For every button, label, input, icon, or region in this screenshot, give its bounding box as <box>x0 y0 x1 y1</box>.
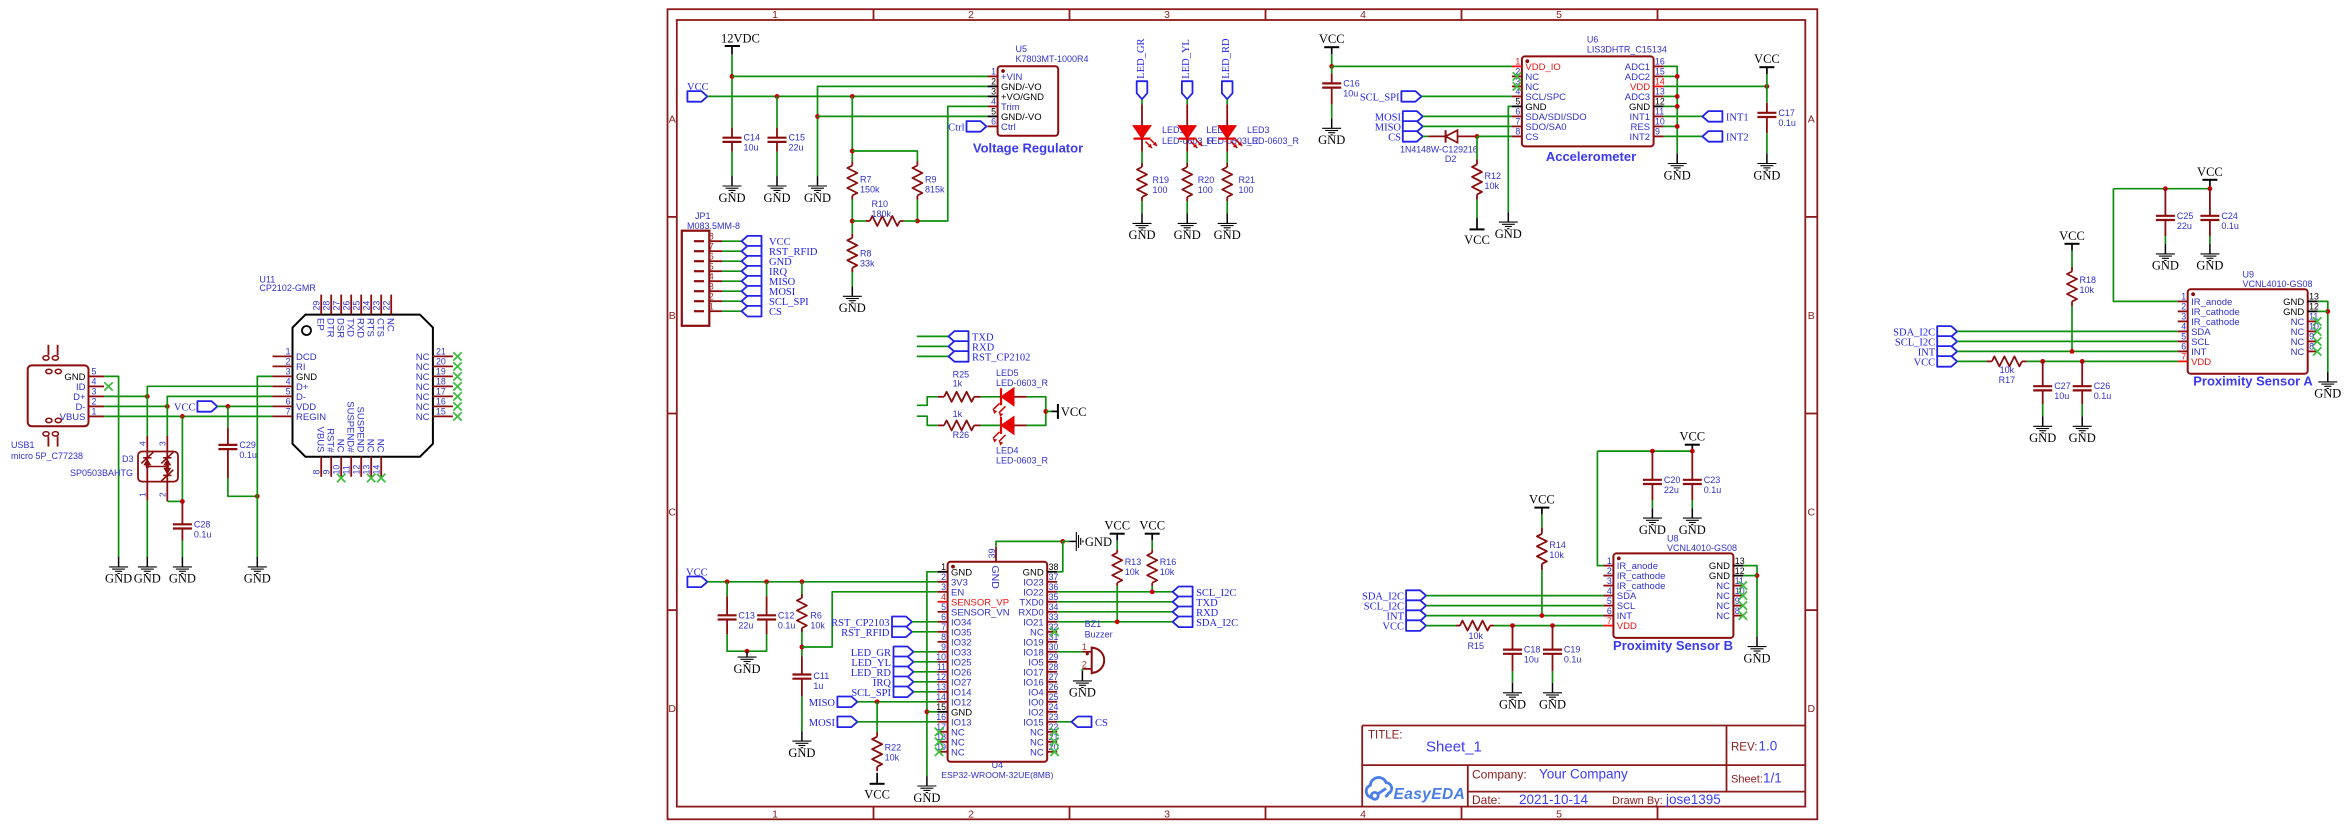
svg-text:16: 16 <box>936 712 946 722</box>
wire EN wire <box>802 592 938 647</box>
junction LED VCC <box>1043 409 1048 414</box>
wire to VCC flag <box>1046 410 1052 412</box>
svg-text:0.1u: 0.1u <box>2094 391 2112 401</box>
ground (U8 GND) <box>1743 637 1770 666</box>
net flag GND (JP1) <box>742 256 762 267</box>
svg-text:3: 3 <box>991 87 996 97</box>
svg-text:1k: 1k <box>953 409 963 419</box>
svg-text:GND: GND <box>2029 431 2056 445</box>
USB1 pin 2 D- <box>75 397 104 413</box>
LED4 anode lead <box>1014 424 1027 426</box>
svg-text:C23: C23 <box>1704 475 1721 485</box>
svg-text:VBUS: VBUS <box>60 412 86 423</box>
wire VCC to U11 VDD <box>217 405 273 407</box>
svg-text:R9: R9 <box>925 175 937 185</box>
svg-text:6: 6 <box>709 252 714 262</box>
svg-text:Proximity Sensor A: Proximity Sensor A <box>2193 374 2313 389</box>
svg-text:10u: 10u <box>1343 88 1358 98</box>
D3 pin 1 lead <box>146 482 148 501</box>
svg-text:0.1u: 0.1u <box>778 620 796 630</box>
svg-text:3: 3 <box>1164 9 1170 21</box>
svg-text:4: 4 <box>1607 586 1612 596</box>
svg-text:10k: 10k <box>1160 567 1175 577</box>
wire D+ riser to U11 pin 4 <box>147 386 272 396</box>
net flag SDA_I2C (U8) <box>1406 590 1426 601</box>
net flag TXD <box>949 331 969 342</box>
power flag VCC (R13) <box>1104 519 1130 541</box>
ground (C14) <box>718 176 745 205</box>
svg-text:R8: R8 <box>860 249 872 259</box>
net flag IRQ (JP1) <box>742 266 762 277</box>
svg-text:100: 100 <box>1153 185 1168 195</box>
U4 pin 25 IO0 <box>1028 692 1058 708</box>
net flag SDA_I2C (U9) <box>1937 326 1957 337</box>
svg-text:2021-10-14: 2021-10-14 <box>1519 792 1589 807</box>
net flag RST_CP2103 <box>892 617 912 628</box>
wire VBUS drop to D3/C28 <box>181 416 183 501</box>
connector USB1 body <box>28 365 89 426</box>
svg-text:29: 29 <box>312 301 322 311</box>
svg-text:35: 35 <box>1049 592 1059 602</box>
net flag CS (JP1) <box>742 306 762 317</box>
svg-text:R21: R21 <box>1239 175 1256 185</box>
net flag SDA_I2C (U4) <box>1173 617 1193 628</box>
svg-text:1: 1 <box>1607 556 1612 566</box>
U11 pin 27 DSR <box>332 295 346 339</box>
svg-text:micro 5P_C77238: micro 5P_C77238 <box>11 451 83 461</box>
wire U6 pin to GND rail <box>1664 95 1678 97</box>
svg-text:27: 27 <box>1049 672 1059 682</box>
junction C23 <box>1690 449 1695 454</box>
U8 pin 6 INT <box>1603 606 1632 622</box>
svg-text:1: 1 <box>2181 292 2186 302</box>
svg-text:12: 12 <box>352 465 362 475</box>
wire LED_YL flag to LED <box>1186 99 1188 104</box>
frame row letters <box>668 113 1815 715</box>
svg-text:B: B <box>669 310 676 322</box>
wire D- from USB <box>104 405 167 407</box>
svg-text:12: 12 <box>1735 566 1745 576</box>
power flag VCC (U8) <box>1679 430 1705 452</box>
svg-text:1: 1 <box>772 9 778 21</box>
svg-text:VDD: VDD <box>2191 357 2211 368</box>
svg-text:2: 2 <box>1082 659 1087 669</box>
wire MISO wire to U4 IO12 <box>857 701 937 703</box>
net flag LED_GR (U4) <box>894 647 914 658</box>
U4 pin 21 NC <box>1030 732 1059 748</box>
svg-text:LED_GR: LED_GR <box>1136 38 1147 78</box>
junction R9/R10/Trim <box>915 219 920 224</box>
U4 pin 4 SENSOR_VP <box>938 592 1009 608</box>
wire INT to U9 INT <box>1957 350 2178 352</box>
svg-text:NC: NC <box>2291 347 2305 358</box>
svg-text:0.1u: 0.1u <box>194 529 212 539</box>
svg-text:15: 15 <box>436 407 446 417</box>
svg-text:2: 2 <box>2181 302 2186 312</box>
capacitor C12 <box>757 596 776 634</box>
svg-text:26: 26 <box>1049 682 1059 692</box>
U9 pin 12 GND <box>2283 302 2319 318</box>
svg-text:D: D <box>668 703 676 715</box>
svg-text:LED5: LED5 <box>996 368 1019 378</box>
JP1 pin 7 <box>694 242 722 252</box>
svg-text:2: 2 <box>709 292 714 302</box>
svg-text:9: 9 <box>2309 332 2314 342</box>
IC U5 voltage regulator body <box>998 66 1059 136</box>
resistor R20 <box>1182 163 1192 201</box>
wire IO21 to SDA_I2C <box>1057 621 1172 623</box>
wire U4 pin15 to GND rail <box>927 711 938 713</box>
junction C19 <box>1550 623 1555 628</box>
wire VCC rail to U9 IR_anode <box>2113 189 2177 302</box>
svg-text:5: 5 <box>1556 809 1562 821</box>
capacitor C14 <box>723 128 742 152</box>
U6 pin1 marker dot <box>1525 59 1529 63</box>
svg-text:M083.5MM-8: M083.5MM-8 <box>687 221 740 231</box>
svg-text:10k: 10k <box>2000 365 2015 375</box>
svg-text:BZ1: BZ1 <box>1085 619 1102 629</box>
svg-text:B: B <box>1808 310 1815 322</box>
wire SCL_I2C to U8 SCL <box>1426 605 1603 607</box>
junction U6 GND rail <box>1675 74 1680 79</box>
U6 pin 4 SCL/SPC <box>1512 87 1566 103</box>
wire VCC to C29 <box>227 406 229 427</box>
ground (R21) <box>1214 214 1241 243</box>
net flag MOSI (JP1) <box>742 286 762 297</box>
svg-text:NC: NC <box>385 318 396 332</box>
wire C29 bottom to GND node <box>228 478 257 496</box>
wire C27 to ground <box>2042 404 2044 416</box>
junction C26 <box>2080 359 2085 364</box>
junction R16/SCL <box>1150 589 1155 594</box>
svg-text:GND: GND <box>1069 686 1096 700</box>
U4 pin 36 IO22 <box>1023 582 1058 598</box>
svg-text:27: 27 <box>332 301 342 311</box>
svg-text:7: 7 <box>709 242 714 252</box>
U11 pin 13 NC <box>362 439 376 477</box>
svg-text:10k: 10k <box>1549 550 1564 560</box>
wire U6 INT1 wire <box>1664 115 1703 117</box>
JP1 pin 1 <box>694 302 722 312</box>
wire stub to R26 <box>917 416 938 425</box>
power flag VCC (C16) <box>1319 32 1345 54</box>
svg-text:GND: GND <box>989 566 1001 590</box>
svg-text:Drawn By:: Drawn By: <box>1612 795 1663 807</box>
wire D3 pin2 to C28 node <box>167 500 182 502</box>
wire R18 to INT line <box>2071 306 2073 351</box>
U11 pin 8 VBUS <box>312 427 326 477</box>
no-connect X on U8 pin 11 <box>1739 581 1747 589</box>
U11 pin 20 NC <box>416 357 453 373</box>
U4 pin1 marker dot <box>951 565 955 569</box>
no-connect X on U8 pin 9 <box>1739 601 1747 609</box>
wire C17 to ground <box>1766 133 1768 153</box>
ground (R8) <box>839 286 866 315</box>
U9 pin 3 IR_cathode <box>2178 312 2240 328</box>
U11 pin 18 NC <box>416 377 453 393</box>
svg-text:VCC: VCC <box>1139 519 1165 533</box>
net flag VCC (JP1) <box>742 236 762 247</box>
svg-text:1: 1 <box>772 809 778 821</box>
wire R8 to ground <box>851 272 853 286</box>
no-connect X on U11 pin 20 <box>453 362 461 370</box>
capacitor C17 <box>1757 103 1776 133</box>
svg-text:INT1: INT1 <box>1726 112 1749 123</box>
no-connect X on U4 left NC pin <box>935 728 943 736</box>
wire U9 GND13 to ground <box>2318 301 2328 372</box>
wire MISO to U6 SDO/SA0 <box>1423 125 1512 127</box>
svg-text:R19: R19 <box>1153 175 1170 185</box>
USB1 pin 3 D+ <box>73 387 104 403</box>
net flag MOSI (U6) <box>1403 111 1423 122</box>
junction R7/R9 top <box>850 149 855 154</box>
svg-text:LED4: LED4 <box>996 446 1019 456</box>
svg-text:SDA_I2C: SDA_I2C <box>1196 618 1238 629</box>
junction C24 <box>2208 186 2213 191</box>
wire VBUS from USB to U11 REGIN <box>104 415 272 417</box>
JP1 pin 4 <box>694 272 722 282</box>
wire JP1 pin 7 to flag <box>722 250 742 252</box>
JP1 pin 6 <box>694 252 722 262</box>
svg-text:NC: NC <box>335 439 346 453</box>
capacitor C13 <box>718 596 737 634</box>
wire C11 to ground <box>801 696 803 731</box>
wire U5 GND/-VO pin5 to GND rail <box>818 115 988 117</box>
net flag VCC (top left) <box>687 91 707 102</box>
svg-text:C16: C16 <box>1343 78 1360 88</box>
svg-text:100: 100 <box>1239 185 1254 195</box>
svg-text:22u: 22u <box>738 620 753 630</box>
ground (C11) <box>788 731 815 760</box>
svg-text:0.1u: 0.1u <box>1564 655 1582 665</box>
svg-text:TITLE:: TITLE: <box>1368 730 1403 742</box>
frame column numbers <box>772 9 1562 820</box>
junction U6 GND rail <box>1675 124 1680 129</box>
wire C25 to ground <box>2164 236 2166 244</box>
U4 pin 13 IO14 <box>936 682 971 698</box>
wire pin38 GND wire <box>1057 541 1063 571</box>
svg-text:8: 8 <box>2309 342 2314 352</box>
LED LED5 <box>993 388 1014 417</box>
no-connect X on U11 pin 19 <box>453 372 461 380</box>
net flag SCL_SPI (JP1) <box>742 296 762 307</box>
ground (C28) <box>169 557 196 586</box>
power flag VCC (R12) <box>1464 218 1490 247</box>
capacitor C29 <box>218 427 237 478</box>
junction R7/R8/R10 <box>850 219 855 224</box>
svg-text:SUSPEND#: SUSPEND# <box>345 401 356 453</box>
svg-text:Ctrl: Ctrl <box>1001 122 1016 133</box>
U11 pin 1 DCD <box>273 347 317 363</box>
net flag CS (U6) <box>1403 131 1423 142</box>
svg-text:GND: GND <box>1753 168 1780 182</box>
wire LED2 to R20 <box>1186 152 1188 163</box>
svg-text:GND: GND <box>2152 259 2179 273</box>
wire U6 INT2 wire <box>1664 135 1703 137</box>
svg-text:10k: 10k <box>1125 567 1140 577</box>
net flag RST_RFID (JP1) <box>742 246 762 257</box>
no-connect X on U11 pin 15 <box>453 412 461 420</box>
IC U11 CP2102 body <box>293 315 433 457</box>
U4 pin 11 IO26 <box>937 662 972 678</box>
svg-text:LED-0603_R: LED-0603_R <box>1247 136 1300 146</box>
wire JP1 pin 5 to flag <box>722 270 742 272</box>
net flag LED_RD (U4) <box>894 667 914 678</box>
LED LED1 <box>1133 104 1157 151</box>
svg-text:GND: GND <box>1174 228 1201 242</box>
resistor R15 <box>1456 621 1494 631</box>
svg-text:GND: GND <box>169 572 196 586</box>
svg-text:A: A <box>669 113 676 125</box>
svg-text:C13: C13 <box>738 610 755 620</box>
net flag MISO (U6) <box>1403 121 1423 132</box>
svg-text:GND: GND <box>1499 698 1526 712</box>
net flag LED_RD <box>1222 81 1233 99</box>
svg-text:6: 6 <box>2181 342 2186 352</box>
wire C18 to ground <box>1512 671 1514 683</box>
svg-text:INT2: INT2 <box>1726 132 1749 143</box>
JP1 pin 2 <box>694 292 722 302</box>
svg-text:R20: R20 <box>1198 175 1215 185</box>
svg-text:A: A <box>1808 113 1815 125</box>
wire SCL_I2C to U9 SCL <box>1957 340 2178 342</box>
svg-text:10: 10 <box>332 465 342 475</box>
svg-text:180k: 180k <box>872 209 892 219</box>
junction VCC rail <box>764 579 769 584</box>
wire R26 to LED4 <box>981 424 1002 426</box>
JP1 pin 5 <box>694 262 722 272</box>
svg-text:SCL_SPI: SCL_SPI <box>851 688 891 699</box>
wire VDD_IO to C16 <box>1331 66 1333 73</box>
svg-text:1.0: 1.0 <box>1759 739 1778 754</box>
U4 pin 22 NC <box>1030 722 1059 738</box>
capacitor C26 <box>2073 361 2092 404</box>
U9 pin 1 IR_anode <box>2178 292 2233 308</box>
junction VDD/C17 <box>1765 84 1770 89</box>
no-connect X on U9 pin 11 <box>2313 317 2321 325</box>
svg-text:LED_YL: LED_YL <box>1181 39 1192 79</box>
wire U8 GND13 to ground <box>1743 566 1757 637</box>
LED LED2 <box>1178 104 1202 151</box>
wire JP1 pin 8 to flag <box>722 240 742 242</box>
frame column ticks top <box>874 9 1658 20</box>
svg-text:jose1395: jose1395 <box>1665 792 1721 807</box>
net flag MISO (JP1) <box>742 276 762 287</box>
svg-text:U4: U4 <box>992 760 1004 770</box>
junction U9 GND12 <box>2325 309 2330 314</box>
net flag RXD <box>949 341 969 352</box>
U8 pin 4 SDA <box>1603 586 1637 602</box>
svg-text:2: 2 <box>968 9 974 21</box>
U8 pin 2 IR_cathode <box>1603 566 1665 582</box>
U8 pin 7 VDD <box>1603 616 1637 632</box>
svg-text:5: 5 <box>709 262 714 272</box>
svg-text:6: 6 <box>1607 606 1612 616</box>
svg-text:20: 20 <box>436 357 446 367</box>
junction R18/INT <box>2070 349 2075 354</box>
svg-text:6: 6 <box>286 397 291 407</box>
svg-text:3: 3 <box>709 282 714 292</box>
capacitor C11 <box>792 657 811 697</box>
U9 pin 4 SDA <box>2178 322 2212 338</box>
JP1 pin 8 <box>694 232 722 242</box>
svg-text:R17: R17 <box>1999 375 2016 385</box>
U4 pin 1 GND <box>938 562 973 578</box>
svg-text:22u: 22u <box>2177 221 2192 231</box>
svg-text:VCNL4010-GS08: VCNL4010-GS08 <box>2243 279 2313 289</box>
svg-text:TXD: TXD <box>345 318 356 337</box>
svg-text:5: 5 <box>941 602 946 612</box>
power flag 12VDC <box>721 32 760 55</box>
svg-text:Sheet:: Sheet: <box>1731 774 1763 786</box>
junction C20 <box>1650 449 1655 454</box>
svg-text:12VDC: 12VDC <box>721 32 760 46</box>
svg-text:CTS: CTS <box>375 318 386 337</box>
svg-text:SCL_SPI: SCL_SPI <box>1360 92 1400 103</box>
U9 pin 5 SCL <box>2178 332 2210 348</box>
wire RST_CP2103 to U4 <box>912 621 938 623</box>
U4 pin 5 SENSOR_VN <box>938 602 1010 618</box>
no-connect X on U11 bottom pin <box>367 474 375 482</box>
junction U6 GND rail <box>1675 94 1680 99</box>
svg-text:11: 11 <box>342 465 352 474</box>
no-connect X on U11 pin 18 <box>453 382 461 390</box>
ground (C16) <box>1318 118 1345 147</box>
U4 pin 37 IO23 <box>1023 572 1058 588</box>
U11 pin 9 RST# <box>322 428 336 477</box>
wire U8 GND12 wire <box>1743 575 1757 577</box>
U9 pin 8 NC <box>2291 342 2318 358</box>
svg-text:R10: R10 <box>872 199 889 209</box>
wire VCC to C15 <box>776 96 778 127</box>
svg-text:37: 37 <box>1049 572 1059 582</box>
svg-text:10k: 10k <box>885 753 900 763</box>
svg-text:GND: GND <box>1318 133 1345 147</box>
resistor R16 <box>1147 550 1157 586</box>
wire R19 to ground <box>1141 201 1143 214</box>
junction R6/C11/EN <box>800 645 805 650</box>
junction U8 GND12 <box>1755 573 1760 578</box>
IC U8 VCNL4010 body <box>1613 553 1733 638</box>
svg-text:GND: GND <box>1639 523 1666 537</box>
svg-text:VCC: VCC <box>1754 52 1780 66</box>
svg-text:15: 15 <box>936 702 946 712</box>
svg-text:D3: D3 <box>122 454 134 464</box>
svg-text:Ctrl: Ctrl <box>948 122 964 133</box>
svg-text:SUSPEND: SUSPEND <box>355 407 366 453</box>
svg-text:C18: C18 <box>1524 645 1541 655</box>
resistor R9 <box>912 162 922 200</box>
svg-text:GND: GND <box>733 662 760 676</box>
svg-text:R22: R22 <box>885 743 902 753</box>
U6 pin 12 GND <box>1629 97 1665 113</box>
svg-text:3: 3 <box>286 367 291 377</box>
U11 pin 6 VDD <box>273 397 317 413</box>
svg-text:VCC: VCC <box>1061 405 1087 419</box>
wire JP1 pin 6 to flag <box>722 260 742 262</box>
svg-text:22: 22 <box>382 301 392 311</box>
U4 pin 2 3V3 <box>938 572 968 588</box>
wire C12 to ground node <box>747 634 767 651</box>
ground (R19) <box>1128 214 1155 243</box>
svg-text:JP1: JP1 <box>695 211 711 221</box>
resistor R7 <box>847 162 857 200</box>
wire R7 bottom to R8/R10 node <box>851 200 853 234</box>
ground (U6 right) <box>1664 154 1691 183</box>
svg-text:34: 34 <box>1049 602 1059 612</box>
svg-text:C12: C12 <box>778 610 795 620</box>
svg-text:10k: 10k <box>810 620 825 630</box>
